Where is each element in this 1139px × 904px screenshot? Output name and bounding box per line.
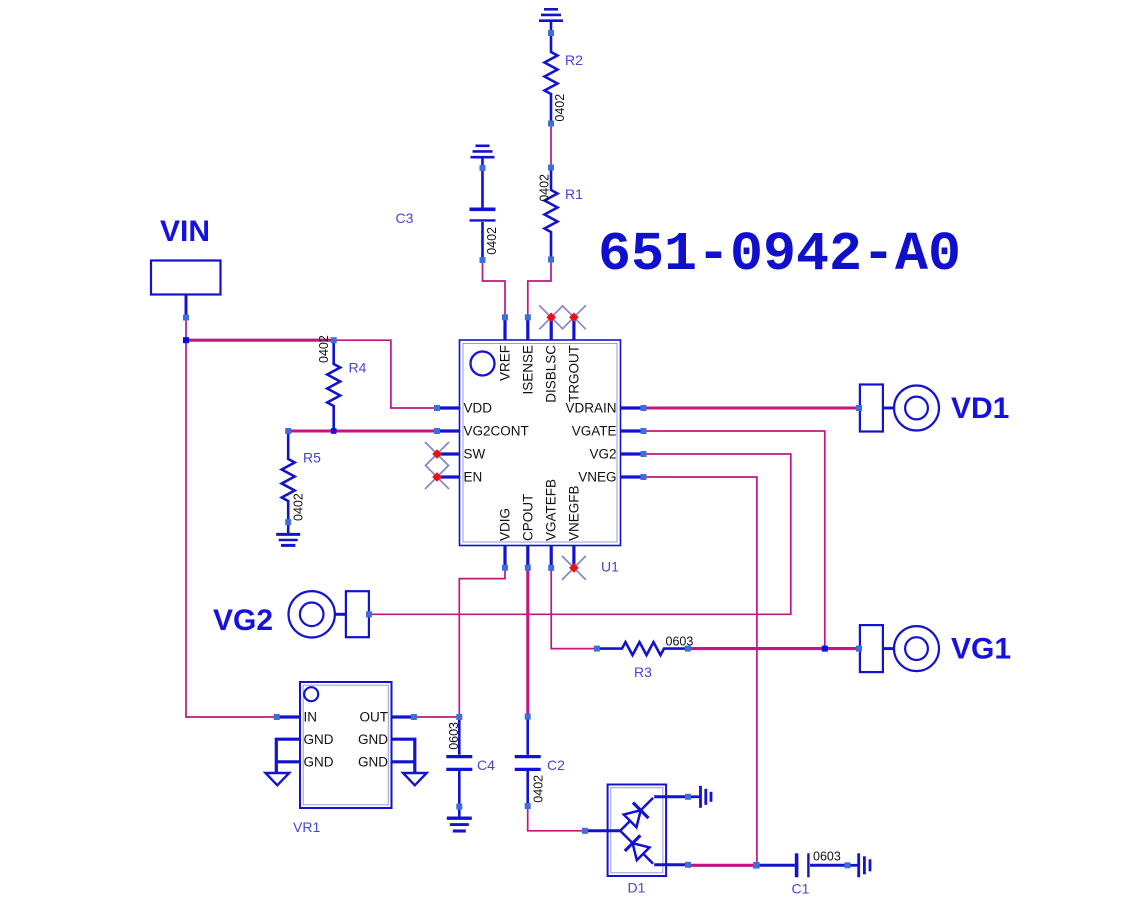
svg-text:VGATEFB: VGATEFB: [544, 479, 559, 541]
node VG2 pin: [641, 451, 647, 457]
VD1 port: [860, 385, 939, 432]
U1 left pin stubs: [437, 408, 460, 477]
wire D1 bottom to VNEG junction thick: [688, 864, 756, 867]
red dot EN: [432, 472, 442, 482]
wire VGATEFB to R3 left: [551, 568, 597, 649]
resistor R2: [545, 33, 558, 124]
svg-text:0402: 0402: [317, 335, 331, 363]
svg-text:0402: 0402: [553, 94, 567, 122]
node VR1 OUT pin: [411, 714, 417, 720]
svg-text:R2: R2: [565, 52, 583, 68]
no-connect X VNEGFB: [562, 556, 586, 580]
svg-text:VG2CONT: VG2CONT: [464, 424, 529, 439]
node D1 lower pin: [685, 862, 691, 868]
wire VG2 net to VG2 port: [369, 454, 791, 614]
diode pack D1 box: [608, 785, 667, 877]
svg-text:0603: 0603: [813, 850, 841, 864]
node R2 bottom: [548, 121, 554, 127]
no-connect X DISBLSC: [539, 305, 563, 329]
node R2 top: [548, 30, 554, 36]
VIN port rectangle: [151, 261, 221, 295]
VG2 port: [289, 591, 369, 637]
svg-text:VD1: VD1: [951, 392, 1009, 425]
node C2 bottom: [525, 803, 531, 809]
red dot TRGOUT: [569, 313, 579, 323]
svg-text:0603: 0603: [666, 635, 694, 649]
wire CPOUT to C2 thick: [526, 568, 529, 717]
svg-text:VNEG: VNEG: [578, 470, 616, 485]
node VR1 IN pin: [274, 714, 280, 720]
svg-text:GND: GND: [304, 732, 334, 747]
node VG2 port pin: [366, 611, 372, 617]
svg-text:VG2: VG2: [589, 447, 616, 462]
D1 upper pin wire: [654, 795, 688, 798]
D1 lower pin wire: [654, 863, 688, 866]
U1 bottom pin stubs: [505, 546, 574, 568]
svg-text:R3: R3: [634, 664, 652, 680]
wire R3 right to VG1 thick: [688, 647, 859, 650]
node CPOUT pin: [525, 565, 531, 571]
wire R4 top to VDD: [334, 340, 437, 408]
capacitor C2: [515, 717, 541, 806]
svg-text:VG2: VG2: [213, 604, 273, 637]
VR1 left GND bracket: [276, 739, 300, 773]
svg-text:651-0942-A0: 651-0942-A0: [598, 223, 961, 286]
red dot VNEGFB: [569, 563, 579, 573]
svg-text:0402: 0402: [485, 227, 499, 255]
VR1 left GND triangle: [266, 773, 290, 785]
node R1 bottom: [548, 257, 554, 263]
node ISENSE pin: [525, 314, 531, 320]
ground below R5: [276, 522, 300, 545]
svg-text:0402: 0402: [538, 174, 552, 202]
VR1 OUT stub: [392, 715, 414, 718]
resistor R4: [327, 340, 340, 431]
node R3 left: [594, 646, 600, 652]
node C1 right: [845, 862, 851, 868]
wire R1 bottom to ISENSE: [528, 260, 551, 318]
node VGATEFB pin: [548, 565, 554, 571]
node R5 bottom: [285, 519, 291, 525]
ground right of D1: [688, 786, 711, 808]
node C3 top: [480, 165, 486, 171]
node VDRAIN pin: [641, 405, 647, 411]
node C4 bottom: [456, 804, 462, 810]
VR1 IN stub: [277, 715, 300, 718]
svg-text:SW: SW: [464, 447, 486, 462]
VR1 right GND bracket: [392, 739, 415, 773]
node VIN port pin: [183, 315, 189, 321]
ground right of C1: [848, 853, 871, 877]
VR1 right GND triangle: [403, 773, 427, 785]
svg-text:TRGOUT: TRGOUT: [566, 345, 581, 402]
U1 top pin stubs: [505, 317, 574, 340]
svg-text:0603: 0603: [447, 722, 461, 750]
svg-text:U1: U1: [601, 559, 619, 575]
svg-text:VREF: VREF: [498, 345, 513, 381]
svg-text:GND: GND: [304, 755, 334, 770]
ground (flipped) above R2: [539, 9, 563, 33]
ground below C4: [447, 807, 472, 831]
VR1 box: [300, 682, 392, 808]
node VDD pin: [434, 405, 440, 411]
node D1 left pin: [582, 828, 588, 834]
VG1 port: [860, 625, 939, 672]
resistor R3: [597, 642, 688, 655]
svg-text:C2: C2: [547, 757, 565, 773]
svg-text:VIN: VIN: [160, 215, 210, 248]
svg-text:GND: GND: [358, 755, 388, 770]
D1 lower diode: [612, 823, 660, 871]
VR1 pin1 circle: [304, 687, 318, 701]
wire VNEG down to D1/C1 net: [644, 477, 757, 865]
node C1 left junction: [753, 862, 760, 869]
svg-text:VGATE: VGATE: [572, 424, 617, 439]
svg-text:C3: C3: [396, 210, 414, 226]
U1 pin1 circle: [471, 352, 495, 376]
svg-text:R4: R4: [349, 360, 367, 376]
svg-text:GND: GND: [358, 732, 388, 747]
D1 left pin wire: [585, 829, 620, 832]
node VIN T-junction: [183, 337, 189, 343]
svg-text:0402: 0402: [292, 493, 306, 521]
svg-text:VNEGFB: VNEGFB: [566, 485, 581, 541]
svg-text:R1: R1: [565, 186, 583, 202]
svg-text:EN: EN: [464, 470, 483, 485]
svg-text:IN: IN: [304, 710, 318, 725]
node C4/OUT/VDIG junction: [456, 714, 462, 720]
wire C3 bottom to VREF: [483, 260, 506, 317]
svg-text:R5: R5: [303, 450, 321, 466]
wire VGATE down to VG1 net: [644, 431, 825, 649]
wire VIN net thick to R4 top: [186, 339, 334, 342]
node C2 top: [525, 714, 531, 720]
no-connect X TRGOUT: [562, 305, 586, 329]
red dot SW: [432, 449, 442, 459]
node VD1 port pin: [856, 405, 862, 411]
node R4 top: [331, 337, 337, 343]
svg-text:ISENSE: ISENSE: [520, 345, 535, 395]
no-connect X SW: [425, 442, 449, 466]
wire R5/R4 to VG2CONT thick: [288, 429, 437, 432]
node VDIG pin: [502, 565, 508, 571]
svg-text:VDD: VDD: [464, 401, 493, 416]
VIN port lead: [185, 295, 188, 318]
node D1 upper pin: [685, 794, 691, 800]
wire R2 bottom to R1 top: [550, 124, 552, 168]
svg-text:VDIG: VDIG: [498, 508, 513, 541]
node R1 top: [548, 165, 554, 171]
red dot DISBLSC: [546, 313, 556, 323]
node R5 top: [285, 428, 291, 434]
node VGATE/VG1 junction: [822, 646, 828, 652]
node VG2CONT pin: [434, 428, 440, 434]
node C3 bottom: [480, 257, 486, 263]
node VG1 port pin: [856, 646, 862, 652]
svg-text:DISBLSC: DISBLSC: [544, 345, 559, 403]
svg-text:VR1: VR1: [293, 819, 320, 835]
node VNEG pin: [641, 474, 647, 480]
svg-text:VG1: VG1: [951, 633, 1011, 666]
IC U1 box: [460, 340, 621, 546]
svg-text:C4: C4: [477, 757, 495, 773]
node R4/R5 junction: [331, 428, 337, 434]
resistor R5: [282, 431, 295, 522]
capacitor C3: [470, 168, 496, 260]
no-connect X EN: [425, 465, 449, 489]
ground (flipped) above C3: [471, 146, 495, 168]
wire VIN port lead to junction: [185, 318, 187, 341]
node R3 right: [685, 646, 691, 652]
capacitor C1: [756, 853, 847, 877]
D1 upper diode: [612, 790, 660, 838]
U1 right pin stubs: [621, 408, 644, 477]
resistor R1: [545, 168, 558, 260]
capacitor C4: [446, 717, 472, 807]
wire VDRAIN to VD1 thick: [644, 406, 860, 409]
node VGATE pin: [641, 428, 647, 434]
svg-text:0402: 0402: [532, 775, 546, 803]
svg-text:D1: D1: [628, 880, 646, 896]
svg-text:CPOUT: CPOUT: [520, 494, 535, 541]
svg-text:C1: C1: [792, 881, 810, 897]
wire VR1 OUT to junction: [414, 716, 459, 718]
wire VDIG to C4/OUT junction: [459, 568, 505, 717]
svg-text:OUT: OUT: [360, 710, 389, 725]
wire VIN net down to VR1 IN: [186, 340, 277, 717]
node VREF pin: [502, 314, 508, 320]
wire C2 bottom to D1 left: [528, 806, 585, 831]
